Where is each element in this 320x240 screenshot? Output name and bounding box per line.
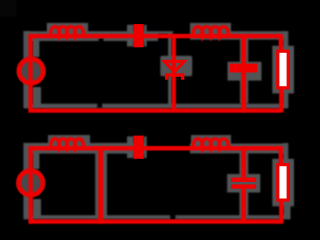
wire source branch (a) gray band upper right [33,39,40,58]
load branch (a) gray band bottom [283,89,288,108]
resistor R1 gray halo [272,46,294,94]
capacitor C4 branch upper wire [241,146,246,178]
wire shunt branch (b) gray band [95,143,107,219]
wire bottom rail (a) [28,108,281,112]
wire top rail (a) gray band right [190,31,288,40]
wire source branch (b) [28,146,32,224]
wire source branch (a) gray band left [23,31,30,108]
wire source branch (b) gray band lower right [33,199,42,216]
wire source branch (b) gray band left [23,143,30,219]
wire top rail (a) [28,34,280,38]
diode D1 gray block [160,56,192,76]
capacitor C2 gray block [228,62,262,81]
capacitor C1 gray left plate [127,25,134,47]
capacitor C3 red plate [134,136,144,159]
gap in bottom rail gray (a) [97,103,103,108]
wire top rail (b) gray band left [24,143,147,154]
wire source branch (a) [28,34,32,112]
wire bottom rail (b) gray band [24,215,290,219]
wire top rail (a) gray band mid (above only) [158,31,173,34]
current source I1 circle [19,59,43,83]
gap in bottom rail gray (b) [170,215,176,219]
inductor L2 loops [193,27,228,36]
diode D1 branch gray band [168,33,172,108]
inductor L3 gray block [48,135,90,151]
inductor L1 gray block [47,23,88,39]
capacitor C3 gray right sliver [144,136,147,158]
inductor L1 loops [51,27,84,36]
wire source branch (a) gray band lower right [33,87,42,104]
diode D1 branch wire [172,34,176,112]
load branch (a) lower wire [279,87,283,112]
inductor L4 gray block [191,135,231,151]
capacitor C4 red bottom plate [231,184,256,188]
resistor R1 body [278,51,288,88]
capacitor C2 branch gray band [240,38,248,103]
capacitor C3 gray left plate [127,136,134,158]
wire top rail (a) gray band left [24,31,158,41]
gap in top rail gray (a) [98,38,104,41]
capacitor C1 red plate [134,24,144,47]
load branch (a) gray band top [283,31,288,46]
wire top rail (b) gray band right [190,144,288,154]
resistor R2 body [278,165,288,201]
current source I2 gray disc [17,169,45,197]
wire shunt branch (b) [98,146,103,224]
wire bottom rail (b) [28,219,281,224]
wire top rail (b) [28,146,280,151]
capacitor C2 red bar [230,64,257,73]
current source I2 circle [19,171,43,195]
load branch (b) gray band bottom [284,201,291,219]
inductor L2 gray block [190,23,231,39]
load branch (b) lower wire [279,200,283,224]
load branch (a) upper wire [279,34,283,52]
load branch (b) gray band top [283,143,288,159]
diode D1 cathode bar with end hooks [167,75,183,80]
inductor L4 loops [193,139,228,148]
capacitor C4 branch lower wire [241,189,246,224]
current source I1 gray disc [17,57,45,85]
faint label block top-left [0,0,17,17]
capacitor C4 red top plate [231,178,256,182]
capacitor C4 branch gray band [239,151,248,219]
capacitor C2 branch wire [241,34,246,113]
inductor L3 loops [51,139,84,148]
wire bottom rail (a) gray band [24,104,288,109]
capacitor C4 gray block [227,174,260,193]
resistor R2 gray halo [272,159,294,207]
capacitor C1 gray right sliver [144,25,147,47]
wire source branch (b) gray band upper right [33,151,40,169]
load branch (b) upper wire [279,146,283,165]
diode D1 triangle [164,61,184,72]
